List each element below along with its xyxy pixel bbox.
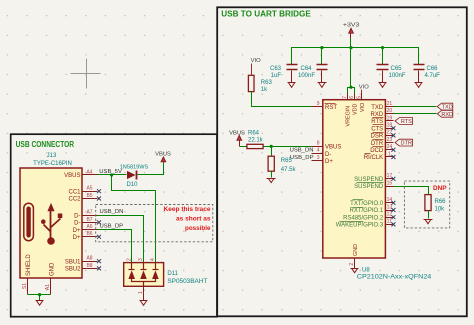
svg-text:D10: D10 [126,182,138,188]
svg-text:B5: B5 [86,193,92,199]
svg-text:D-: D- [74,221,80,227]
pin A5 CC1 [83,191,98,193]
resistor R64 [247,144,263,148]
U8 top: 3V3 drop and VREGIN/VDD bracket [350,48,352,88]
svg-text:CC2: CC2 [68,197,81,203]
USB trident icon [41,203,62,245]
D11 internal diodes [128,263,158,287]
svg-text:22: 22 [387,130,393,136]
pin 20 RXD [386,113,394,115]
pin A7 D- [83,215,98,217]
svg-text:DTR: DTR [401,141,412,147]
svg-text:CP2102N-Axx-xQFN24: CP2102N-Axx-xQFN24 [357,275,432,281]
note text keep this trace as short as possible [164,206,212,232]
svg-text:15: 15 [387,180,393,186]
svg-text:C64: C64 [300,66,312,72]
svg-text:J13: J13 [47,153,57,159]
svg-text:Keep this trace: Keep this trace [164,206,212,213]
wire RXD [394,113,437,115]
wire VBUS arrow to R64 [240,146,247,148]
junction USB_5V [110,173,113,176]
ground under U8 [351,268,359,272]
pin numbers J13 [22,169,93,290]
svg-text:USB_DN: USB_DN [100,209,124,215]
pin 18 CTS [386,128,394,130]
capacitor C66 [414,65,425,83]
overlines for pin names [365,118,384,154]
pin A4 VBUS [83,174,98,176]
USB-C receptacle icon [24,203,34,240]
pin 21 TXD [386,106,394,108]
ground under C63 [288,83,296,88]
wire TXD [394,106,437,108]
svg-text:18: 18 [387,123,393,129]
wire shield-gnd join [28,294,51,296]
svg-text:3: 3 [317,155,320,161]
svg-text:100nF: 100nF [298,73,315,79]
ground under R66 [424,219,433,223]
svg-text:D+: D+ [325,159,333,165]
svg-text:2: 2 [126,258,132,261]
svg-text:100nF: 100nF [389,73,406,79]
pin A8 SBU1 [83,261,98,263]
U8 bottom pin 2 GND [354,259,356,269]
svg-text:VBUS: VBUS [64,173,80,179]
wire R65 to ground [271,172,273,178]
junction VREGIN/VDD [349,86,352,89]
power symbol VBUS (left) [161,157,166,162]
svg-text:8: 8 [317,140,320,146]
svg-text:TXT/GPIO.0: TXT/GPIO.0 [350,201,384,207]
junction shield-gnd [38,293,41,296]
svg-text:A4: A4 [86,169,92,175]
svg-text:TXD: TXD [442,105,453,111]
svg-text:TXD: TXD [371,105,384,111]
svg-text:GND: GND [50,262,56,276]
pin 19 RTS [386,120,394,122]
svg-text:24: 24 [387,144,393,150]
global label DTR [395,139,413,147]
svg-text:1: 1 [138,291,144,294]
U8 left pin 8 VBUS [312,146,323,148]
J13 right-side pins [28,175,98,295]
svg-text:USB_DP: USB_DP [100,223,124,229]
wire C64 riser [321,48,323,65]
junction 3V3 stem [349,46,352,49]
svg-text:R66: R66 [435,199,447,205]
svg-text:RXD: RXD [441,112,453,118]
ground under R65 [267,178,276,182]
svg-text:RI/CLK: RI/CLK [364,155,383,161]
wire junction to R65 [271,147,273,157]
resistor R65 [268,156,274,171]
global label RXD [437,110,453,118]
svg-text:possible: possible [185,225,211,232]
pin 11 WAKEUP/GPIO.3 [386,224,394,226]
svg-text:1k: 1k [261,87,268,93]
wire R64 to VBUS pin [264,146,312,148]
U8 right pin names [364,105,384,161]
svg-text:VIO: VIO [359,84,369,90]
ground under C66 [415,83,423,88]
U8 top pins 7 6 5 [348,94,362,100]
svg-text:GND: GND [353,244,359,256]
svg-text:WAKEUP/GPIO.3: WAKEUP/GPIO.3 [336,223,384,229]
wire USB_DP [98,230,132,263]
svg-text:C66: C66 [427,66,439,72]
svg-text:19: 19 [387,115,393,121]
svg-text:D+: D+ [73,235,81,241]
svg-text:A1: A1 [45,284,51,290]
pin names J13 [26,173,81,276]
svg-text:9: 9 [317,101,320,107]
svg-text:D11: D11 [167,271,178,277]
U8 left pin 3 D+ [312,160,323,162]
capacitor C64 [317,65,328,83]
svg-text:12: 12 [387,212,393,218]
svg-text:TYPE-C16PIN: TYPE-C16PIN [33,161,72,167]
U8 right side pins [386,107,394,225]
pin B8 SBU2 [83,268,98,270]
pin 15 /SUSPEND [386,186,394,188]
global label RTS [395,118,413,126]
svg-text:S1: S1 [22,283,28,289]
svg-text:DNP: DNP [433,185,447,192]
svg-text:RXT/GPIO.1: RXT/GPIO.1 [350,208,384,214]
pin 22 DSR [386,135,394,137]
svg-text:VBUS: VBUS [155,152,171,158]
pin A1 GND [50,279,52,295]
svg-text:C65: C65 [391,66,403,72]
svg-text:VDD: VDD [353,104,359,115]
svg-text:4: 4 [150,258,156,261]
sheet border USB TO UART BRIDGE [217,7,467,316]
IC U8 body [323,100,386,258]
svg-text:20: 20 [387,108,393,114]
svg-text:B8: B8 [86,263,92,269]
sheet origin cross [71,59,101,89]
no-connect crosses J13 [97,189,101,270]
diode D10 1N5819WS [127,171,137,180]
svg-text:13: 13 [387,204,393,210]
U8 left pin 4 D- [312,153,323,155]
svg-text:7: 7 [342,96,348,99]
svg-text:SBU1: SBU1 [65,259,81,265]
svg-text:USB_DN: USB_DN [290,148,314,154]
pin B5 CC2 [83,198,98,200]
svg-text:4: 4 [317,148,320,154]
wire SUSPEND to R66 [394,187,429,195]
svg-text:4.7uF: 4.7uF [425,73,441,79]
svg-text:2: 2 [349,263,355,266]
pin 1 RI/CLK [386,156,394,158]
svg-text:17: 17 [387,173,393,179]
svg-text:USB CONNECTOR: USB CONNECTOR [16,139,75,149]
pin 17 SUSPEND [386,178,394,180]
svg-text:VIO: VIO [251,58,261,64]
svg-text:6: 6 [349,96,355,99]
DNP dashed box [404,181,449,228]
pin 24 DCD [386,149,394,151]
wire C65 riser [382,48,384,65]
svg-text:VBUS: VBUS [325,145,341,151]
svg-text:RTS: RTS [401,119,412,125]
svg-text:RXD: RXD [371,112,384,118]
svg-text:A6: A6 [86,224,92,230]
svg-text:SUSPEND: SUSPEND [354,184,384,190]
svg-text:as short as: as short as [176,216,211,223]
svg-text:RS485/GPIO.2: RS485/GPIO.2 [343,215,384,221]
U8 right no-connect crosses [391,126,395,226]
pin B6 D+ [83,236,98,238]
svg-text:D-: D- [325,152,331,158]
pin 12 RS485/GPIO.2 [386,217,394,219]
connector J13 body [20,168,82,278]
wire USB_5V [98,174,127,176]
svg-text:1N5819WS: 1N5819WS [120,165,149,171]
svg-text:SHIELD: SHIELD [26,254,32,276]
svg-text:VBUS: VBUS [229,131,245,137]
D11 pin numbers 2 3 4 [126,258,156,261]
svg-text:B7: B7 [86,217,92,223]
global label TXD [437,103,453,111]
svg-text:1uF: 1uF [271,73,282,79]
svg-text:R63: R63 [261,80,273,86]
wire R63 to RST [252,92,312,107]
svg-text:CC1: CC1 [68,189,81,195]
svg-text:22.1k: 22.1k [248,138,264,144]
ground symbol under J13 [36,301,44,306]
wire 3V3 bus [292,48,419,65]
svg-text:47.5k: 47.5k [281,167,297,173]
pin 13 RXT/GPIO.1 [386,210,394,212]
note box keep-trace-short [96,205,213,242]
resistor R63 [248,75,254,91]
svg-text:SUSPEND: SUSPEND [354,177,384,183]
wire R66 to ground [428,211,430,219]
svg-text:R64: R64 [248,131,260,137]
pin 14 TXT/GPIO.0 [386,202,394,204]
svg-text:14: 14 [387,197,393,203]
svg-text:A8: A8 [86,256,92,262]
wire to ground [39,295,41,301]
resistor R66 [425,195,431,211]
ground under C64 [318,83,327,88]
capacitor C65 [377,65,389,83]
svg-text:A7: A7 [86,210,92,216]
D11 pin 1 [143,287,145,301]
junction R65 [270,145,273,148]
U8 left pin 9 RST [312,106,323,108]
svg-text:A5: A5 [86,186,92,192]
U8 top pin names [345,103,365,127]
svg-text:11: 11 [387,219,392,225]
wire D10 to VBUS arrow [138,162,164,175]
ground symbol under D11 [140,301,148,306]
junction C64 [320,46,323,49]
pin A6 D+ [83,229,98,231]
wire USB_5V branch to D11 [112,175,156,263]
svg-text:SBU2: SBU2 [65,267,81,273]
pin B7 D- [83,222,98,224]
svg-text:21: 21 [387,101,393,107]
pin S1 SHIELD [27,279,29,295]
capacitor C63 [287,65,298,83]
svg-text:B6: B6 [86,231,92,237]
svg-text:USB TO UART BRIDGE: USB TO UART BRIDGE [221,9,311,19]
pin 23 DTR [386,142,394,144]
svg-text:D+: D+ [73,228,81,234]
svg-text:DTR: DTR [371,141,384,147]
svg-text:5: 5 [356,96,362,99]
U8 right pin numbers [387,101,393,225]
ground under C65 [379,83,387,88]
svg-text:VREGIN: VREGIN [345,106,351,127]
svg-text:D-: D- [74,213,80,219]
svg-text:USB_DP: USB_DP [290,155,314,161]
svg-text:3: 3 [138,258,144,261]
svg-text:1: 1 [388,151,391,157]
svg-text:10k: 10k [435,207,446,213]
TVS diode D11 body [124,263,164,287]
sheet border USB CONNECTOR [11,134,217,317]
wire USB_DN [98,216,144,263]
svg-text:SP0503BAHT: SP0503BAHT [167,279,207,285]
svg-text:VIO: VIO [360,103,366,112]
svg-text:CTS: CTS [371,126,383,132]
svg-text:23: 23 [387,137,393,143]
svg-text:DCD: DCD [370,148,384,154]
svg-text:U8: U8 [362,268,370,274]
svg-text:DSR: DSR [371,134,384,140]
junction C65 [381,46,384,49]
svg-text:RST: RST [325,105,337,111]
svg-text:C63: C63 [270,66,282,72]
